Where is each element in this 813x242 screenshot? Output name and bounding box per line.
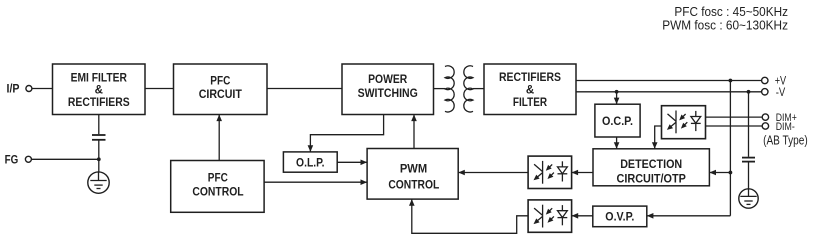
terminal +V — [762, 77, 768, 83]
block O.V.P. — [593, 206, 647, 227]
svg-text:RECTIFIERS: RECTIFIERS — [499, 72, 561, 84]
wire power switching to OLP — [310, 115, 383, 152]
junction sense to detection — [729, 171, 733, 175]
svg-text:FILTER: FILTER — [513, 97, 548, 109]
wire to detection right — [709, 172, 730, 174]
opto-coupler dimming U3 — [662, 106, 706, 139]
svg-text:CONTROL: CONTROL — [388, 180, 439, 192]
opto-coupler OVP U4 — [528, 200, 572, 232]
svg-text:RECTIFIERS: RECTIFIERS — [68, 97, 130, 109]
wire I/P to EMI filter — [32, 88, 53, 90]
junction FG node — [97, 157, 101, 161]
junction +V rail — [729, 79, 733, 83]
wire -V to OCP — [616, 92, 618, 104]
transformer T1 secondary winding — [464, 66, 473, 112]
svg-text:&: & — [95, 84, 103, 96]
wire DIM- line — [706, 125, 763, 127]
wire Y-cap to earth — [748, 162, 750, 189]
svg-text:POWER: POWER — [368, 74, 408, 86]
opto-coupler feedback U2 — [528, 156, 572, 188]
wire PFC control to PFC circuit — [218, 115, 220, 161]
wire PFC circuit to power switching — [267, 88, 342, 90]
svg-text:FG: FG — [5, 153, 19, 167]
junction -V rail — [747, 90, 751, 94]
terminal DIM- — [762, 123, 768, 129]
wire EMI filter to Y-cap input — [98, 115, 100, 135]
capacitor input Y-cap — [92, 135, 106, 140]
block POWER SWITCHING — [342, 64, 434, 115]
wire +V rail — [576, 80, 762, 82]
junction -V to OCP — [615, 90, 619, 94]
terminal I/P — [26, 86, 32, 92]
wire OCP to detection — [616, 137, 618, 149]
wire power switching to primary — [434, 88, 446, 90]
wire opto U4 to PWM control — [412, 199, 528, 233]
wire dim opto to detection — [655, 126, 662, 149]
svg-text:O.C.P.: O.C.P. — [602, 116, 633, 128]
svg-text:PFC fosc : 45~50KHz: PFC fosc : 45~50KHz — [674, 5, 788, 19]
terminal DIM+ — [762, 114, 768, 120]
wire detection to opto U2 — [572, 172, 594, 174]
svg-text:CONTROL: CONTROL — [192, 187, 243, 199]
svg-text:PFC: PFC — [210, 76, 230, 88]
block O.C.P. — [595, 104, 640, 137]
block RECTIFIERS & FILTER — [484, 64, 576, 115]
block PFC CONTROL — [171, 161, 264, 213]
wire PWM control to power switching — [413, 115, 415, 149]
block PWM CONTROL — [367, 149, 458, 200]
svg-text:PWM: PWM — [400, 164, 427, 176]
block O.L.P. — [283, 152, 337, 172]
svg-text:CIRCUIT: CIRCUIT — [199, 89, 242, 101]
svg-text:SWITCHING: SWITCHING — [358, 88, 418, 100]
svg-text:-V: -V — [776, 85, 786, 99]
svg-text:PWM fosc : 60~130KHz: PWM fosc : 60~130KHz — [662, 18, 788, 32]
wire Y-cap to earth — [98, 140, 100, 172]
svg-text:CIRCUIT/OTP: CIRCUIT/OTP — [617, 174, 687, 186]
wire sense to OVP — [647, 215, 731, 217]
wire -V rail — [576, 91, 762, 93]
ground input earth — [88, 172, 109, 193]
block PFC CIRCUIT — [174, 64, 268, 115]
capacitor output Y-cap — [742, 158, 755, 162]
wire EMI to PFC circuit — [145, 88, 174, 90]
wire FG to ground node — [32, 158, 99, 160]
svg-text:I/P: I/P — [7, 82, 20, 96]
wire OLP to PWM control — [337, 161, 367, 163]
svg-text:O.L.P.: O.L.P. — [296, 157, 325, 169]
wire OVP to opto U4 — [572, 215, 593, 217]
wire opto U2 to PWM control — [458, 172, 528, 174]
block EMI FILTER & RECTIFIERS — [53, 64, 146, 115]
wire DIM+ line — [706, 116, 763, 118]
svg-text:DIM-: DIM- — [776, 121, 795, 133]
ground output earth — [739, 189, 758, 208]
wire secondary to rectifiers — [473, 88, 484, 90]
block DETECTION CIRCUIT/OTP — [593, 149, 709, 186]
svg-text:EMI FILTER: EMI FILTER — [71, 72, 128, 84]
svg-text:O.V.P.: O.V.P. — [605, 211, 634, 223]
svg-text:DETECTION: DETECTION — [620, 159, 682, 171]
svg-text:(AB Type): (AB Type) — [763, 133, 808, 147]
svg-text:PFC: PFC — [208, 173, 228, 185]
terminal -V — [762, 89, 768, 95]
wire +V sense drop — [729, 81, 731, 216]
svg-text:&: & — [526, 84, 534, 96]
terminal FG — [25, 156, 31, 162]
wire -V to Y-cap — [748, 92, 750, 157]
transformer T1 primary winding — [445, 66, 454, 112]
wire PFC control to PWM control — [264, 181, 367, 183]
